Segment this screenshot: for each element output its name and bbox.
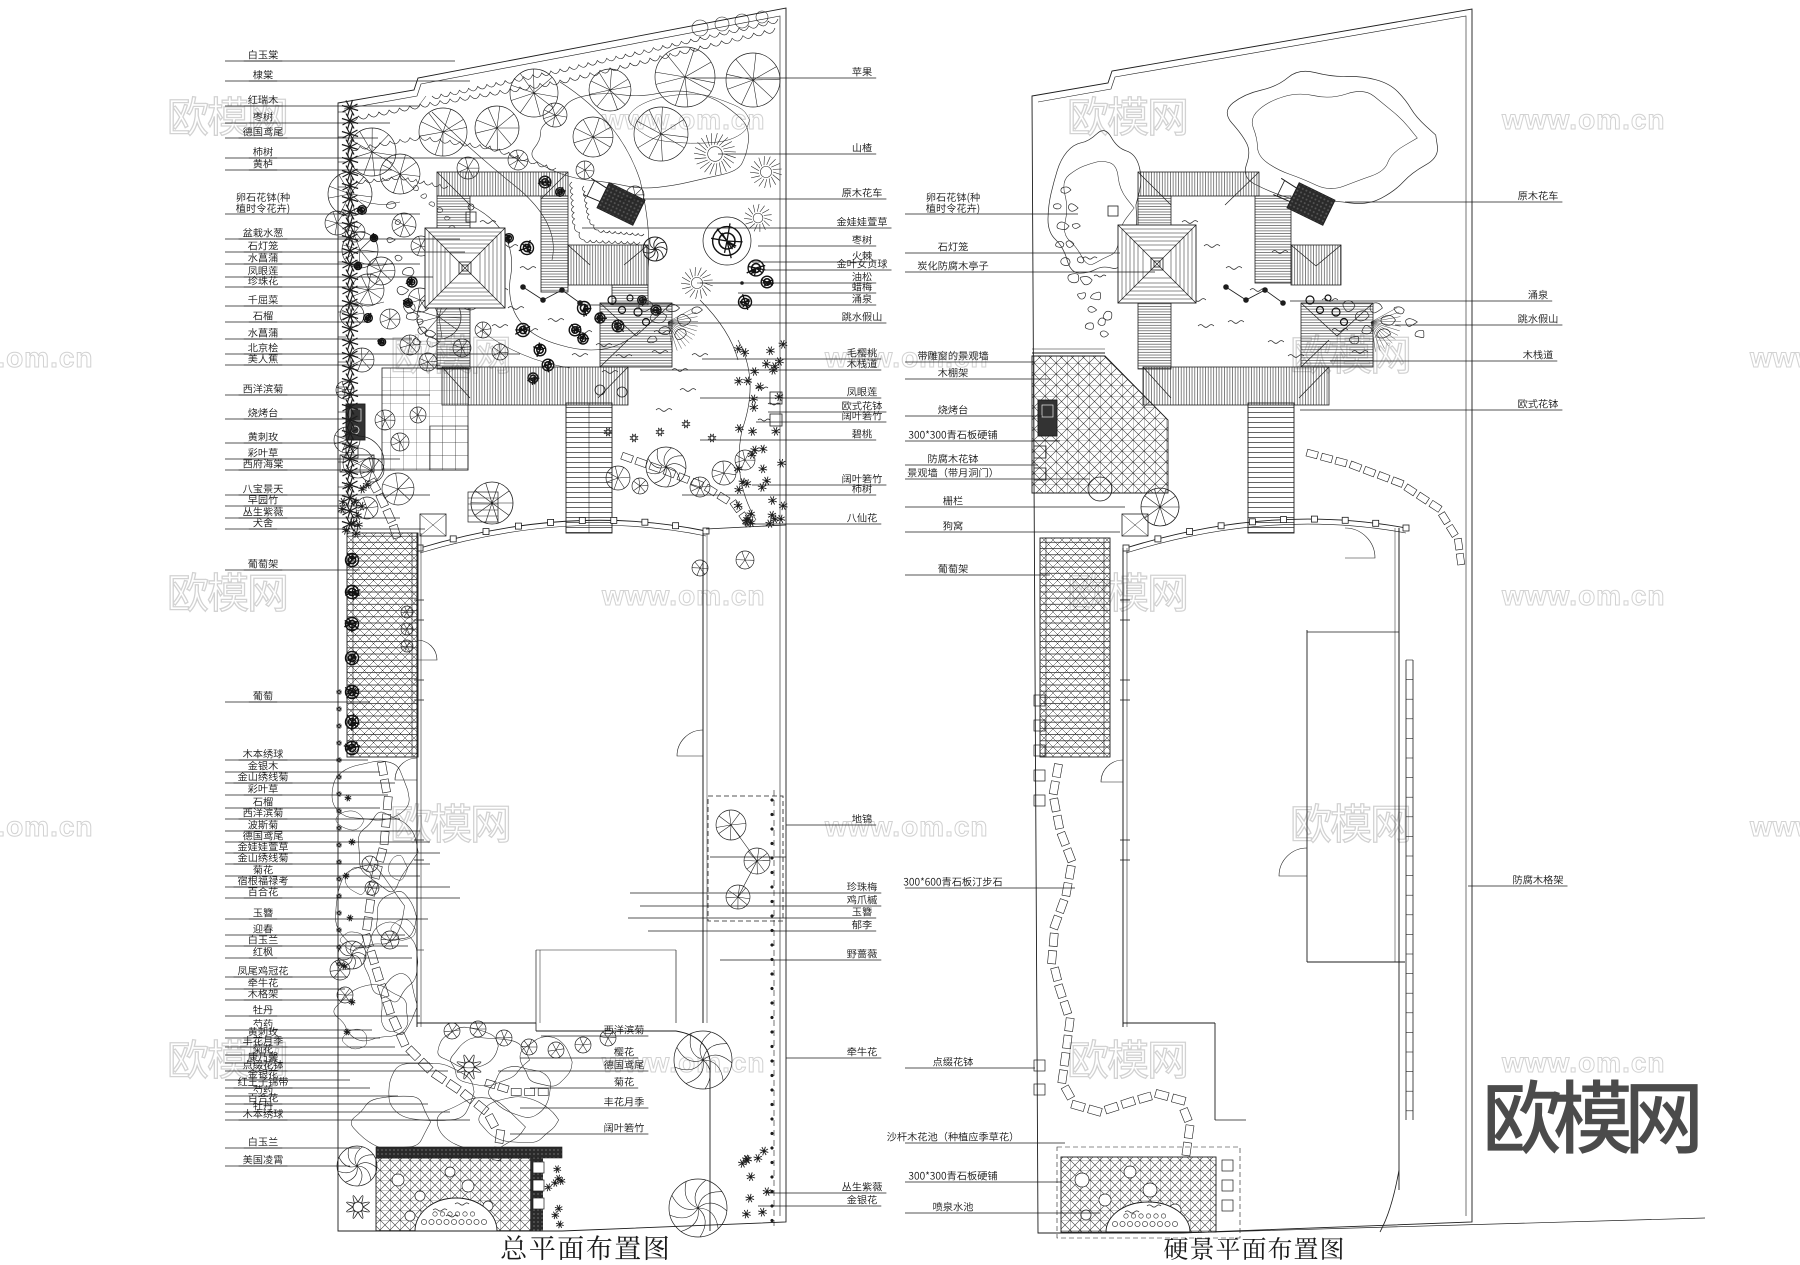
label 西洋滨菊 [604, 1025, 644, 1034]
right plan stone lantern [1108, 206, 1118, 216]
label 300*300青石板硬铺 [909, 430, 997, 439]
label 水菖蒲 [244, 328, 412, 339]
left plan column dot flowers [336, 689, 341, 694]
label 德国鸢尾 [239, 831, 430, 842]
left plan dark swirl tree [643, 237, 667, 261]
left plan top lawn blob [532, 91, 749, 188]
label 盆栽水葱 [239, 228, 460, 239]
label 防腐木花钵 [928, 454, 978, 463]
svg-text:www.om.cn: www.om.cn [1501, 580, 1666, 611]
svg-text:www.om.cn: www.om.cn [824, 342, 989, 373]
left plan house door arcs [395, 758, 417, 780]
label 菊花 [614, 1077, 634, 1086]
svg-text:www.om.cn: www.om.cn [1749, 811, 1800, 842]
left plan top hedge [348, 28, 775, 121]
left plan extra top band trees [457, 157, 479, 179]
left plan pebble row near stream [413, 186, 418, 191]
label 金山绣线菊 [234, 772, 396, 783]
left plan speckled ball 金娃娃萱草 [713, 227, 742, 256]
left plan extra small trees upper-left [342, 232, 378, 268]
label 木本绣球 [239, 1109, 470, 1120]
label 金娃娃萱草 [234, 842, 441, 853]
label 早园竹 [244, 495, 360, 506]
right plan stone arc upper [1306, 449, 1465, 565]
label 百合花 [244, 1093, 428, 1104]
right plan patio lattice [1032, 356, 1168, 493]
label 山楂 [853, 143, 872, 152]
label 波斯菊 [244, 820, 420, 831]
svg-text:www.om.cn: www.om.cn [0, 342, 94, 373]
right plan dark pebbles pond edge [1306, 296, 1314, 304]
svg-text:www.om.cn: www.om.cn [1749, 342, 1800, 373]
label 带雕窗的景观墙 [918, 351, 988, 360]
right plan trellis [1040, 538, 1110, 757]
svg-text:www.om.cn: www.om.cn [601, 580, 766, 611]
label 葡萄架 [938, 564, 968, 573]
left plan terrace circles [392, 1174, 404, 1186]
left plan half tree on patio [358, 436, 384, 488]
label 跳水假山 [1518, 314, 1557, 323]
label 黄刺玫 [244, 1027, 380, 1038]
label 丛生紫薇 [842, 1182, 882, 1191]
left plan hydrangea 八仙花 [743, 517, 753, 527]
left plan wall window ticks [414, 599, 424, 601]
label 石灯笼 [938, 242, 968, 251]
label 金叶女贞球 [837, 259, 887, 268]
right plan pot column left [1034, 695, 1045, 706]
label 300*300青石板硬铺 [909, 1171, 997, 1180]
label 西府海棠 [239, 459, 395, 470]
label 珍珠梅 [847, 882, 877, 891]
left plan waterfall rockery 跌水假山 [639, 301, 653, 312]
right plan bottom extension line [1180, 1218, 1705, 1233]
left plan right yard trees [674, 1031, 732, 1089]
label 凤眼莲 [847, 387, 877, 396]
label 火棘 [852, 251, 872, 260]
left plan stone lantern 石灯笼 [466, 212, 476, 222]
label 沙杆木花池（种植应季草花） [887, 1132, 1012, 1142]
left plan curved wall 栏杆 [420, 520, 706, 548]
left plan spring fountain dots 涌泉 [523, 287, 580, 303]
label 美国凌霄 [239, 1155, 350, 1166]
right plan inner boundary [1038, 16, 1466, 1216]
left plan bamboo bed right 阔叶箬竹 [762, 477, 771, 486]
label 红枫 [249, 947, 412, 958]
label 木栈道 [847, 359, 877, 368]
label 金银木 [244, 761, 380, 772]
left plan outer boundary [338, 8, 786, 1231]
label 彩叶草 [244, 784, 388, 795]
left plan pot column near terrace [533, 1162, 544, 1173]
right plan title 硬景平面布置图 [1164, 1237, 1343, 1260]
left plan pavilion 亭子 [425, 228, 505, 308]
label 枣树 [249, 112, 390, 123]
right plan house door arcs [1279, 848, 1307, 876]
label 丰花月季 [604, 1097, 644, 1106]
label 欧式花钵 [842, 401, 882, 410]
left plan dog house 犬舍 [420, 514, 446, 536]
svg-text:www.om.cn: www.om.cn [1501, 104, 1666, 135]
label 金山绣线菊 [234, 853, 431, 864]
label 玉簪 [852, 907, 871, 916]
label 西洋滨菊 [239, 384, 430, 395]
left plan small trees [325, 211, 349, 235]
label 欧式花钵 [1518, 399, 1558, 408]
left plan pine 油松 [691, 277, 702, 288]
label 原木花车 [842, 188, 882, 197]
left plan mid small trees [401, 606, 413, 618]
label 千屈菜 [244, 295, 363, 306]
left plan pond water [480, 221, 496, 224]
label 康乃馨 [244, 1052, 430, 1063]
left plan stone arc path upper [621, 452, 751, 524]
right plan bbq [1038, 400, 1057, 436]
left plan bed boundary right [738, 340, 756, 520]
right plan pond blob B [1227, 71, 1437, 203]
big logo 欧模网 [1488, 1079, 1698, 1154]
left plan right yard curve [675, 950, 677, 1023]
label 葡萄架 [244, 559, 360, 570]
label 珍珠花 [244, 276, 370, 287]
left plan flowing bed lines [432, 112, 553, 260]
right plan fountain terrace dashed [1057, 1147, 1240, 1238]
right plan spiral stair [1141, 488, 1179, 526]
watermark grid [0, 97, 1800, 1079]
right plan terrace circles [1075, 1173, 1089, 1187]
label 凤尾鸡冠花 [234, 966, 349, 977]
right plan curved wall [1126, 519, 1406, 548]
left plan trellis 葡萄架 [347, 533, 418, 757]
left plan pinwheel tree 柿树 [646, 447, 686, 487]
label 原木花车 [1518, 191, 1558, 200]
left plan terrace hedge dark [376, 1147, 562, 1158]
label 柿树 [249, 147, 520, 158]
left plan blossom trees row 碧桃 [604, 428, 612, 436]
right plan wood deck ring [1138, 172, 1259, 196]
left plan right boundary dashed [773, 790, 775, 1228]
left plan filler small blobs [336, 811, 364, 830]
label 玉簪 [249, 908, 428, 919]
left plan rockery stream [387, 202, 396, 209]
left plan flower cart 原木花车 [581, 175, 645, 226]
left plan dark mini stars strip [345, 795, 352, 802]
label 卵石花钵 right plan [927, 192, 980, 203]
right plan pond water [1182, 221, 1198, 224]
label 景观墙（带月洞门） [908, 468, 992, 478]
label 丰花月季 [239, 1036, 395, 1047]
label 枣树 [852, 235, 872, 244]
left plan small trees row at wall [606, 466, 630, 490]
label 芍药 [249, 1085, 398, 1096]
left plan tree 红枫 [338, 941, 366, 969]
label 防腐木格架 [1513, 875, 1563, 884]
left plan pond edge [470, 205, 640, 350]
label 菊花 [249, 865, 420, 876]
label 狗窝 [943, 521, 962, 530]
right plan fountain pool [1106, 1202, 1190, 1232]
label 彩叶草 [244, 448, 400, 459]
right plan flower cart [1271, 175, 1335, 226]
label 丛生紫薇 [239, 507, 400, 518]
right plan pavilion [1118, 225, 1196, 303]
left plan patio grid [382, 368, 468, 470]
left plan creeper bed dashes 地锦 [708, 796, 783, 921]
left plan winding stone path [362, 762, 505, 1161]
label 白玉兰 [244, 1137, 360, 1148]
label 木本绣球 [239, 749, 368, 760]
label 喷泉水池 [933, 1202, 973, 1211]
left plan rocks near pavilion [406, 312, 419, 320]
svg-text:www.om.cn: www.om.cn [0, 811, 94, 842]
label 野蔷薇 [847, 949, 877, 958]
left plan terrace right dark [531, 1158, 543, 1231]
label 阔叶箬竹 [842, 474, 882, 483]
left plan euro pots 欧式花钵 [770, 392, 782, 404]
label 栅栏 [943, 496, 963, 505]
label 菊花 [249, 1044, 410, 1055]
right plan terrace pots right [1222, 1160, 1233, 1171]
label 黄栌 [249, 159, 392, 170]
label 棣棠 [249, 70, 470, 81]
left plan pond squiggles right bed [756, 387, 768, 389]
left plan rose bed blobs [479, 1097, 559, 1143]
right plan wood lattice strip 防腐木格架 [1405, 660, 1407, 1120]
left plan bamboo bed 早园竹 [351, 497, 360, 506]
label 八宝景天 [239, 484, 430, 495]
left plan plant column stars [342, 100, 358, 116]
label 鸡爪槭 [847, 895, 877, 904]
label 白玉兰 [244, 935, 408, 946]
label 红王子锦带 [234, 1077, 371, 1088]
label 牵牛花 [244, 978, 345, 989]
left plan curved steps below patio [367, 478, 401, 539]
label 柿树 [852, 484, 872, 493]
left plan grape vines [346, 554, 359, 567]
right plan patio wall [1032, 352, 1105, 354]
label 犬舍 [249, 518, 425, 529]
right plan pond blob A [1048, 131, 1141, 274]
label 阔叶箬竹 [604, 1123, 644, 1132]
right plan outer boundary [1032, 9, 1472, 1233]
left plan title 总平面布置图 [501, 1235, 667, 1260]
svg-text:www.om.cn: www.om.cn [1501, 1047, 1666, 1078]
left plan shrub blobs [332, 761, 409, 820]
label 蜡梅 [852, 282, 872, 291]
label 石榴 [249, 797, 380, 808]
left plan right yard partition [710, 856, 786, 858]
label 点缀花钵 [239, 1060, 448, 1071]
left plan flower trees bottom left [337, 1146, 377, 1186]
label 红瑞木 [244, 95, 420, 106]
label 碧桃 [852, 429, 872, 438]
left plan right yard bamboo bottom [746, 1194, 755, 1203]
left plan interior room lines [417, 949, 424, 951]
label 卵石花钵两行 [237, 192, 290, 203]
label 木栈道 [1523, 350, 1553, 359]
left plan deck roof diagonals [437, 172, 672, 398]
label 石榴 [249, 311, 368, 322]
right plan dog house [1122, 514, 1148, 536]
label 德国鸢尾 [239, 127, 378, 138]
left plan stone arc bottom [485, 1079, 549, 1095]
label 牡丹 [249, 1005, 420, 1016]
label 白玉棠 [244, 50, 455, 61]
label 八仙花 [847, 513, 877, 522]
right plan winding stone path [1048, 764, 1194, 1156]
label 郁李 [852, 920, 872, 929]
left plan house walls [416, 533, 418, 1027]
label 300*600青石板汀步石 [904, 877, 1002, 886]
label 阔叶箬竹 [842, 411, 882, 420]
label 西洋滨菊 [239, 808, 400, 819]
label 木格架 [244, 989, 350, 1000]
label 水菖蒲 [244, 253, 420, 264]
label 凤眼莲 [244, 266, 433, 277]
label 百合花 [244, 887, 460, 898]
label 木棚架 [938, 368, 968, 377]
right plan terrace lattice [1061, 1157, 1216, 1232]
label 金银花 [847, 1195, 877, 1204]
left plan spiral stair [471, 482, 513, 524]
label 石灯笼 [244, 241, 465, 252]
right plan spring dots 涌泉 [1226, 287, 1283, 303]
left plan dark tufts upper-left [358, 206, 367, 215]
svg-text:www.om.cn: www.om.cn [601, 1047, 766, 1078]
left plan small pot [346, 446, 358, 458]
label 烧烤台 [244, 408, 356, 419]
label 牵牛花 [847, 1047, 877, 1056]
left plan trees top [348, 128, 396, 176]
left plan deck pots [595, 385, 605, 395]
left plan fountain pool [415, 1198, 497, 1231]
left plan inner boundary line [344, 16, 780, 1216]
left plan terrace lattice [376, 1158, 531, 1231]
left plan scalloped hedge near cart [570, 182, 640, 244]
left plan flower circle 樱花 [457, 1055, 481, 1079]
label 美人蕉 [244, 354, 440, 365]
label 点缀花钵 [933, 1057, 973, 1066]
label 毛樱桃 [847, 348, 877, 357]
left plan bbq 烧烤台 [346, 404, 365, 440]
left plan bottom flower bed trees [444, 1023, 460, 1039]
svg-text:www.om.cn: www.om.cn [824, 811, 989, 842]
right plan steps [1248, 403, 1294, 533]
label 苹果 [852, 67, 871, 76]
left plan planter 西府海棠 [340, 455, 374, 472]
left plan wood deck ring [437, 172, 568, 196]
label 黄刺玫 [244, 432, 352, 443]
label 德国鸢尾 [604, 1060, 644, 1069]
right plan pots on patio edge [1034, 446, 1046, 458]
right plan waterfall rocks [1343, 301, 1355, 312]
right plan moon gate [1088, 477, 1112, 501]
right plan house walls [1122, 548, 1124, 1027]
label 涌泉 [1528, 290, 1548, 299]
label 牡丹 [249, 1101, 450, 1112]
right plan deck diagonals [1138, 172, 1373, 398]
left plan dark shrubs [539, 176, 551, 188]
label 芍药 [249, 1019, 372, 1030]
label 迎春 [249, 924, 405, 935]
right plan wall ticks [1120, 599, 1130, 601]
label 地锦 [852, 814, 871, 823]
label 炭化防腐木亭子 [918, 261, 989, 270]
left plan dark pebbles pond edge [608, 296, 616, 304]
label 金娃娃萱草 [837, 217, 887, 226]
left plan spiky trees [708, 147, 723, 162]
label 跳水假山 [842, 312, 881, 321]
left plan boundary ticks [338, 111, 346, 113]
label 涌泉 [852, 294, 872, 303]
label 金银花 [244, 1069, 350, 1080]
left plan steps from deck [566, 403, 612, 533]
label 宿根福禄考 [234, 876, 451, 887]
right plan rock stream [1061, 187, 1071, 193]
label 樱花 [614, 1047, 634, 1056]
label 葡萄 [249, 691, 370, 702]
label 油松 [852, 272, 871, 281]
label 北京桧 [244, 343, 520, 354]
label 烧烤台 [938, 405, 967, 414]
left plan side steps [468, 492, 498, 522]
